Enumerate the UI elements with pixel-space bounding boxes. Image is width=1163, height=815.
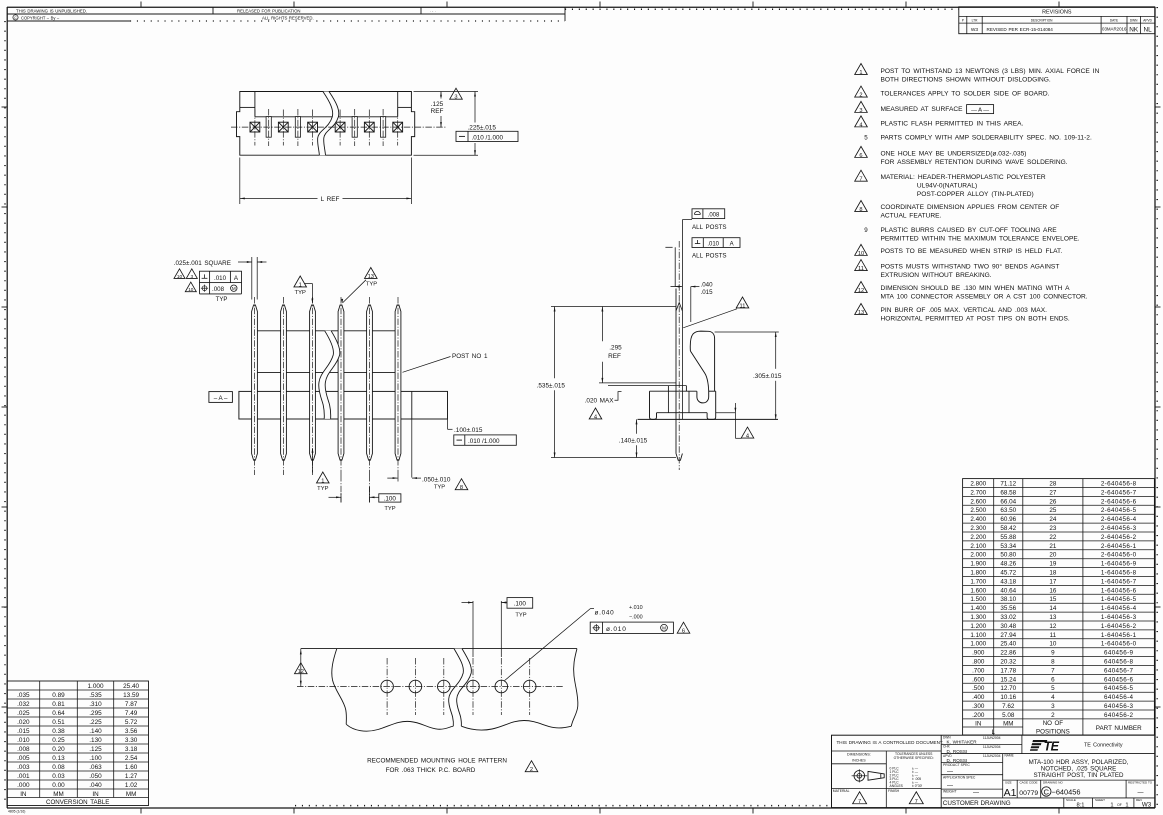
note 1 <box>855 63 868 74</box>
svg-text:TYP: TYP <box>317 486 328 492</box>
svg-text:— A —: — A — <box>971 107 989 113</box>
svg-text:1.200: 1.200 <box>970 623 986 630</box>
svg-text:NK: NK <box>1129 27 1139 34</box>
svg-text:2.400: 2.400 <box>970 516 986 523</box>
svg-text:1.400: 1.400 <box>970 605 986 612</box>
svg-text:1-640456-5: 1-640456-5 <box>1101 596 1137 603</box>
svg-text:1-640456-8: 1-640456-8 <box>1101 570 1137 577</box>
svg-text:.535: .535 <box>89 692 102 699</box>
svg-text:25: 25 <box>1049 507 1057 514</box>
svg-text:.500: .500 <box>972 685 985 692</box>
svg-text:.005: .005 <box>17 755 30 762</box>
svg-text:10: 10 <box>858 251 864 257</box>
svg-text:RELEASED FOR PUBLICATION: RELEASED FOR PUBLICATION <box>237 8 301 13</box>
svg-text:.040: .040 <box>701 281 714 288</box>
svg-text:+.010: +.010 <box>629 605 643 611</box>
svg-text:.305±.015: .305±.015 <box>753 373 782 380</box>
svg-text:L REF: L REF <box>321 196 340 203</box>
svg-text:2-640456-4: 2-640456-4 <box>1101 516 1137 523</box>
svg-text:2-640456-0: 2-640456-0 <box>1101 552 1137 559</box>
TE logo <box>1030 740 1047 751</box>
dimension .535+/-.015 <box>551 306 676 308</box>
svg-text:± 0°30′: ± 0°30′ <box>912 784 923 788</box>
svg-text:30.48: 30.48 <box>1000 623 1016 630</box>
svg-text:ALL RIGHTS RESERVED.: ALL RIGHTS RESERVED. <box>262 15 314 20</box>
svg-text:1-640456-1: 1-640456-1 <box>1101 632 1137 639</box>
FCF position dia .010 M <box>590 622 673 633</box>
svg-text:10: 10 <box>177 274 183 279</box>
svg-text:2-640456-1: 2-640456-1 <box>1101 543 1137 550</box>
border zone ticks <box>140 2 142 8</box>
svg-text:8: 8 <box>460 485 463 491</box>
svg-text:.800: .800 <box>972 659 985 666</box>
svg-text:.140±.015: .140±.015 <box>619 438 648 445</box>
hole size callout <box>505 609 591 681</box>
svg-text:REF: REF <box>431 108 444 115</box>
post 5 section (top view) <box>364 122 374 132</box>
svg-text:25.40: 25.40 <box>123 683 139 690</box>
hole 5 centerline <box>500 658 502 715</box>
svg-text:DATE: DATE <box>1110 18 1118 22</box>
svg-text:DWN: DWN <box>1130 18 1138 22</box>
svg-text:.015: .015 <box>701 289 714 296</box>
dimension .100 TYP boxed <box>340 493 342 503</box>
svg-text:1-640456-4: 1-640456-4 <box>1101 605 1137 612</box>
svg-text:DRAWING NO: DRAWING NO <box>1043 781 1063 785</box>
svg-text:REVISED PER ECR-15-014084: REVISED PER ECR-15-014084 <box>987 27 1054 32</box>
svg-text:60.96: 60.96 <box>1000 516 1016 523</box>
svg-text:MTA 100 CONNECTOR ASSEMBLY OR: MTA 100 CONNECTOR ASSEMBLY OR A CST 100 … <box>881 294 1088 301</box>
svg-text:.295: .295 <box>89 710 102 717</box>
svg-text:8: 8 <box>859 207 862 213</box>
svg-text:PART NUMBER: PART NUMBER <box>1096 725 1142 732</box>
svg-text:.100: .100 <box>514 601 527 608</box>
flag 4 right with leader <box>716 412 736 414</box>
svg-text:12: 12 <box>1049 623 1057 630</box>
svg-text:PLASTIC BURRS CAUSED BY CUT-OF: PLASTIC BURRS CAUSED BY CUT-OFF TOOLING … <box>881 227 1058 234</box>
dimension .025 sq extension lines <box>251 257 253 300</box>
svg-text:7: 7 <box>1051 667 1055 674</box>
controlled document cell <box>832 750 942 752</box>
slot 3 (top view) <box>352 117 357 138</box>
side post <box>675 289 677 454</box>
svg-text:.032: .032 <box>17 701 30 708</box>
svg-text:.040: .040 <box>89 782 102 789</box>
hole 3 centerline <box>443 658 445 715</box>
svg-text:NO OF: NO OF <box>1043 720 1064 727</box>
svg-text:2.700: 2.700 <box>970 489 986 496</box>
svg-text:1.300: 1.300 <box>970 614 986 621</box>
top view break lines <box>318 92 339 156</box>
svg-text:.100: .100 <box>89 755 102 762</box>
svg-text:DESCRIPTION: DESCRIPTION <box>1031 18 1053 22</box>
svg-text:.063: .063 <box>89 764 102 771</box>
centerline post 1 <box>254 297 256 475</box>
pc board top edge <box>301 648 577 650</box>
svg-text:—: — <box>1138 790 1144 796</box>
svg-text:P: P <box>962 18 964 22</box>
svg-text:.015: .015 <box>17 728 30 735</box>
side FCF profile .008 <box>692 209 725 219</box>
svg-text:MM: MM <box>1003 720 1013 727</box>
svg-text:17: 17 <box>1049 578 1057 585</box>
pc board torn right edge <box>571 649 578 727</box>
svg-text:. , .: . , . <box>430 9 436 13</box>
svg-text:20: 20 <box>1049 552 1057 559</box>
svg-text:1.27: 1.27 <box>125 773 138 780</box>
svg-text:SCALE: SCALE <box>1066 798 1076 802</box>
dimension .100 TYP holes <box>472 601 474 657</box>
centerline post 3 <box>312 297 314 475</box>
side FCF perpendicularity .010 A <box>692 238 740 248</box>
name cell <box>1003 779 1155 781</box>
svg-text:PLASTIC FLASH PERMITTED IN THI: PLASTIC FLASH PERMITTED IN THIS AREA. <box>881 120 1024 127</box>
svg-text:50.80: 50.80 <box>1000 552 1016 559</box>
svg-text:.025: .025 <box>17 710 30 717</box>
hole 6 centerline <box>529 658 531 715</box>
svg-text:.125: .125 <box>431 101 444 108</box>
datum -A- box <box>209 392 233 403</box>
svg-text:CONVERSION TABLE: CONVERSION TABLE <box>46 799 109 806</box>
top view post centerlines <box>254 110 256 146</box>
svg-text:24: 24 <box>1049 516 1057 523</box>
svg-text:RESTRICTED TO: RESTRICTED TO <box>1128 781 1153 785</box>
svg-text:.100±.015: .100±.015 <box>454 427 483 434</box>
svg-text:TYP: TYP <box>515 612 526 618</box>
svg-text:.100: .100 <box>384 495 397 502</box>
svg-text:12: 12 <box>298 669 304 675</box>
svg-text:640456-9: 640456-9 <box>1104 650 1134 657</box>
svg-text:71.12: 71.12 <box>1000 481 1016 488</box>
note 4 <box>855 116 868 127</box>
svg-text:5.72: 5.72 <box>125 719 138 726</box>
svg-text:.020: .020 <box>17 719 30 726</box>
svg-text:1: 1 <box>299 282 302 288</box>
svg-text:16: 16 <box>1049 587 1057 594</box>
board seating line <box>638 418 779 420</box>
svg-text:8: 8 <box>1051 659 1055 666</box>
svg-text:APVD: APVD <box>1143 18 1152 22</box>
svg-text:W3: W3 <box>1142 802 1152 809</box>
svg-text:66.04: 66.04 <box>1000 498 1016 505</box>
svg-text:.400: .400 <box>972 694 985 701</box>
svg-text:0.25: 0.25 <box>52 737 65 744</box>
svg-text:REVISIONS: REVISIONS <box>1042 10 1072 16</box>
svg-text:ALL POSTS: ALL POSTS <box>692 224 726 231</box>
size/cage/drawing row <box>1016 780 1018 798</box>
FCF position .008 M <box>199 283 201 294</box>
svg-text:2-640456-7: 2-640456-7 <box>1101 489 1137 496</box>
flag 4 left <box>589 408 602 419</box>
post 1 section (top view) <box>250 122 260 132</box>
note 7 <box>855 170 868 181</box>
note 3 <box>855 101 868 112</box>
note 13 <box>855 303 868 314</box>
svg-text:4805 (1/16): 4805 (1/16) <box>8 810 25 814</box>
svg-text:.010: .010 <box>17 737 30 744</box>
svg-text:TYP: TYP <box>295 290 306 296</box>
svg-text:2-640456-6: 2-640456-6 <box>1101 498 1137 505</box>
svg-text:.000: .000 <box>17 782 30 789</box>
svg-text:IN: IN <box>20 791 27 798</box>
svg-text:1-640456-6: 1-640456-6 <box>1101 587 1137 594</box>
flag 1 top with leader <box>294 276 307 287</box>
post 6 section (top view) <box>393 122 403 132</box>
svg-text:.140: .140 <box>89 728 102 735</box>
svg-text:2.200: 2.200 <box>970 534 986 541</box>
svg-text:INCHES: INCHES <box>852 759 866 763</box>
mounting hole 1 <box>381 680 394 693</box>
svg-text:2-640456-8: 2-640456-8 <box>1101 481 1137 488</box>
svg-text:20.32: 20.32 <box>1000 659 1016 666</box>
svg-text:1.100: 1.100 <box>970 632 986 639</box>
svg-text:PARTS COMPLY WITH AMP SOLDERAB: PARTS COMPLY WITH AMP SOLDERABILITY SPEC… <box>881 134 1092 141</box>
flag 10 row2 <box>185 282 196 292</box>
title block frame <box>832 735 1155 807</box>
svg-text:0.64: 0.64 <box>52 710 65 717</box>
svg-text:.200: .200 <box>972 712 985 719</box>
svg-text:0.81: 0.81 <box>52 701 65 708</box>
post 1 (front view) <box>252 305 258 460</box>
svg-text:COPYRIGHT – By –: COPYRIGHT – By – <box>21 15 60 20</box>
post 2 (front view) <box>281 305 287 460</box>
side housing shoulder lines <box>599 382 676 384</box>
svg-text:640456-5: 640456-5 <box>1104 685 1134 692</box>
svg-text:ø.010: ø.010 <box>606 626 627 633</box>
svg-text:2: 2 <box>859 92 862 98</box>
dimension .225 +/-.015 <box>414 154 479 156</box>
mounting hole 6 <box>523 680 536 693</box>
mounting hole 3 <box>438 680 451 693</box>
svg-text:TYP: TYP <box>366 282 377 288</box>
svg-text:COORDINATE DIMENSION APPLIES F: COORDINATE DIMENSION APPLIES FROM CENTER… <box>881 204 1060 211</box>
dimensions cell <box>832 763 887 765</box>
svg-text:3: 3 <box>190 274 193 279</box>
svg-text:13.59: 13.59 <box>123 692 139 699</box>
flag 1 bottom with leader <box>312 449 314 473</box>
dimension .140+/-.015 <box>636 419 638 433</box>
svg-text:6: 6 <box>1051 676 1055 683</box>
svg-text:55.88: 55.88 <box>1000 534 1016 541</box>
note 11 <box>855 260 868 271</box>
svg-text:640456-3: 640456-3 <box>1104 703 1134 710</box>
svg-text:UL94V-0(NATURAL): UL94V-0(NATURAL) <box>917 183 977 190</box>
svg-text:2.500: 2.500 <box>970 507 986 514</box>
svg-text:9: 9 <box>1051 650 1055 657</box>
svg-text:BOTH DIRECTIONS SHOWN WITHOUT: BOTH DIRECTIONS SHOWN WITHOUT DISLODGING… <box>881 77 1051 84</box>
svg-text:.020 MAX: .020 MAX <box>585 397 615 404</box>
post 5 (front view) <box>367 305 373 460</box>
svg-text:IN: IN <box>92 791 99 798</box>
svg-text:26: 26 <box>1049 498 1057 505</box>
svg-text:M: M <box>232 286 236 291</box>
svg-text:0.03: 0.03 <box>52 773 65 780</box>
front view housing bar <box>239 391 448 419</box>
svg-text:640456-8: 640456-8 <box>1104 659 1134 666</box>
svg-text:11: 11 <box>740 303 746 309</box>
svg-text:THIS DRAWING IS UNPUBLISHED.: THIS DRAWING IS UNPUBLISHED. <box>16 8 87 13</box>
post 4 (front view) <box>338 305 344 460</box>
svg-text:3.56: 3.56 <box>125 728 138 735</box>
svg-text:.295: .295 <box>609 344 622 351</box>
svg-text:.225±.015: .225±.015 <box>468 124 497 131</box>
pc board torn left edge <box>332 649 347 725</box>
svg-text:2-640456-2: 2-640456-2 <box>1101 534 1137 541</box>
svg-text:0.51: 0.51 <box>52 719 65 726</box>
svg-text:MATERIAL: HEADER-THERMOPLASTIC: MATERIAL: HEADER-THERMOPLASTIC POLYESTER <box>881 174 1046 181</box>
svg-text:0.89: 0.89 <box>52 692 65 699</box>
svg-text:5.08: 5.08 <box>1002 712 1015 719</box>
svg-text:.010 /1.000: .010 /1.000 <box>472 134 504 141</box>
note 10 <box>855 244 868 255</box>
svg-text:APPLICATION SPEC: APPLICATION SPEC <box>943 775 976 779</box>
svg-text:.001: .001 <box>17 773 30 780</box>
svg-text:38.10: 38.10 <box>1000 596 1016 603</box>
svg-text:.010: .010 <box>214 275 227 282</box>
dimension flag 12 edge distance <box>300 649 302 687</box>
svg-text:63.50: 63.50 <box>1000 507 1016 514</box>
svg-text:1-640456-3: 1-640456-3 <box>1101 614 1137 621</box>
FCF straightness .010/1.000 (front) <box>454 435 517 445</box>
side FCF leader line <box>682 219 692 221</box>
svg-text:1.000: 1.000 <box>970 641 986 648</box>
post 4 section (top view) <box>335 122 345 132</box>
svg-text:27: 27 <box>1049 489 1057 496</box>
svg-text:.900: .900 <box>972 650 985 657</box>
svg-text:11JUN2004: 11JUN2004 <box>983 745 1001 749</box>
note 12 <box>855 281 868 292</box>
svg-text:LTR: LTR <box>972 18 978 22</box>
svg-text:1-640456-9: 1-640456-9 <box>1101 561 1137 568</box>
scale/sheet/rev row <box>1063 798 1065 808</box>
svg-text:15.24: 15.24 <box>1000 676 1016 683</box>
svg-text:.130: .130 <box>89 737 102 744</box>
side post break ticks <box>665 246 672 248</box>
svg-text:OF: OF <box>1117 803 1122 807</box>
svg-text:2.000: 2.000 <box>970 552 986 559</box>
svg-text:7: 7 <box>859 177 862 183</box>
svg-text:11: 11 <box>1050 632 1057 639</box>
dimension L REF <box>239 158 241 205</box>
svg-text:TYP: TYP <box>384 506 395 512</box>
svg-text:7: 7 <box>858 799 861 805</box>
front view end tab edge <box>411 391 413 419</box>
pc board torn bottom edge <box>346 721 453 731</box>
svg-text:.035: .035 <box>17 692 30 699</box>
svg-text:17.78: 17.78 <box>1000 667 1016 674</box>
dimension .050+/-.010 TYP <box>411 419 413 478</box>
svg-text:.010: .010 <box>707 241 719 247</box>
front view break lines <box>319 331 340 419</box>
svg-text:POSTS TO BE MEASURED WHEN STRI: POSTS TO BE MEASURED WHEN STRIP IS HELD … <box>881 248 1063 255</box>
svg-text:2-640456-3: 2-640456-3 <box>1101 525 1137 532</box>
svg-text:1: 1 <box>859 70 862 76</box>
svg-text:5: 5 <box>1051 685 1055 692</box>
svg-text:C: C <box>1044 787 1050 796</box>
note 8 <box>855 200 868 211</box>
svg-text:K. WHITAKER: K. WHITAKER <box>947 740 978 745</box>
svg-text:11: 11 <box>858 266 864 272</box>
dimension .040/.015 <box>676 286 683 288</box>
svg-text:0.00: 0.00 <box>52 782 65 789</box>
centerline post 5 <box>369 297 371 475</box>
svg-text:640456-2: 640456-2 <box>1104 712 1134 719</box>
svg-text:8:1: 8:1 <box>1076 802 1084 808</box>
svg-text:.600: .600 <box>972 676 985 683</box>
hole 2 centerline <box>414 658 416 715</box>
svg-text:PIN BURR OF .005 MAX. VERTICAL: PIN BURR OF .005 MAX. VERTICAL AND .003 … <box>881 307 1048 314</box>
svg-text:43.18: 43.18 <box>1000 578 1016 585</box>
svg-text:TYP: TYP <box>216 297 228 303</box>
svg-text:REF: REF <box>608 353 621 360</box>
sheet border frame <box>7 6 1155 8</box>
svg-text:1.500: 1.500 <box>970 596 986 603</box>
svg-text:PRODUCT SPEC: PRODUCT SPEC <box>943 763 970 767</box>
svg-text:POST NO 1: POST NO 1 <box>452 353 488 360</box>
svg-text:7.49: 7.49 <box>125 710 138 717</box>
svg-text:.535±.015: .535±.015 <box>537 382 566 389</box>
svg-text:MM: MM <box>126 791 137 798</box>
svg-text:68.58: 68.58 <box>1000 489 1016 496</box>
slot 2 (top view) <box>295 117 300 138</box>
centerline post 6 <box>397 297 399 475</box>
svg-text:4: 4 <box>746 433 749 439</box>
svg-text:1-640456-2: 1-640456-2 <box>1101 623 1137 630</box>
svg-text:TYP: TYP <box>434 485 445 491</box>
svg-text:1-640456-7: 1-640456-7 <box>1101 578 1137 585</box>
note 6 <box>855 146 868 157</box>
svg-text:ø.040: ø.040 <box>595 610 615 617</box>
svg-text:FOR .063 THICK P.C. BOARD: FOR .063 THICK P.C. BOARD <box>386 767 476 774</box>
svg-text:—: — <box>947 783 953 789</box>
svg-text:A: A <box>730 241 734 247</box>
svg-text:27.94: 27.94 <box>1000 632 1016 639</box>
dimension .305+/-.015 <box>715 331 779 333</box>
svg-text:POST-COPPER ALLOY (TIN-PLATED): POST-COPPER ALLOY (TIN-PLATED) <box>917 191 1034 198</box>
centerline post 4 <box>340 297 342 475</box>
svg-text:ACTUAL FEATURE.: ACTUAL FEATURE. <box>881 213 942 220</box>
hole 1 centerline <box>386 658 388 715</box>
dimension .295 REF <box>601 307 603 342</box>
svg-text:1.900: 1.900 <box>970 561 986 568</box>
side housing body <box>650 390 697 392</box>
svg-text:FOR ASSEMBLY RETENTION DURING: FOR ASSEMBLY RETENTION DURING WAVE SOLDE… <box>881 159 1068 166</box>
svg-text:1.60: 1.60 <box>125 764 138 771</box>
svg-text:POSITIONS: POSITIONS <box>1036 728 1070 735</box>
svg-text:640456-4: 640456-4 <box>1104 694 1134 701</box>
svg-text:TE: TE <box>1044 739 1060 753</box>
svg-text:13: 13 <box>858 310 864 316</box>
post 3 (front view) <box>310 305 316 460</box>
svg-text:—: — <box>947 769 953 775</box>
svg-text:3: 3 <box>454 95 457 101</box>
flags 10,3 row1 <box>174 269 185 279</box>
top view inner edge <box>255 116 398 118</box>
svg-text:21: 21 <box>1049 543 1057 550</box>
svg-text:CAGE CODE: CAGE CODE <box>1020 781 1038 785</box>
svg-text:FINISH: FINISH <box>888 789 900 793</box>
svg-text:ANGLES: ANGLES <box>890 784 904 788</box>
note 2 <box>855 86 868 97</box>
svg-text:0.38: 0.38 <box>52 728 65 735</box>
projection symbol cell <box>832 787 942 789</box>
svg-text:9: 9 <box>864 227 868 234</box>
svg-text:13: 13 <box>1049 614 1057 621</box>
svg-text:1: 1 <box>1125 802 1128 808</box>
svg-text:12.70: 12.70 <box>1000 685 1016 692</box>
slot 1 (top view) <box>266 117 271 138</box>
svg-text:2.54: 2.54 <box>125 755 138 762</box>
